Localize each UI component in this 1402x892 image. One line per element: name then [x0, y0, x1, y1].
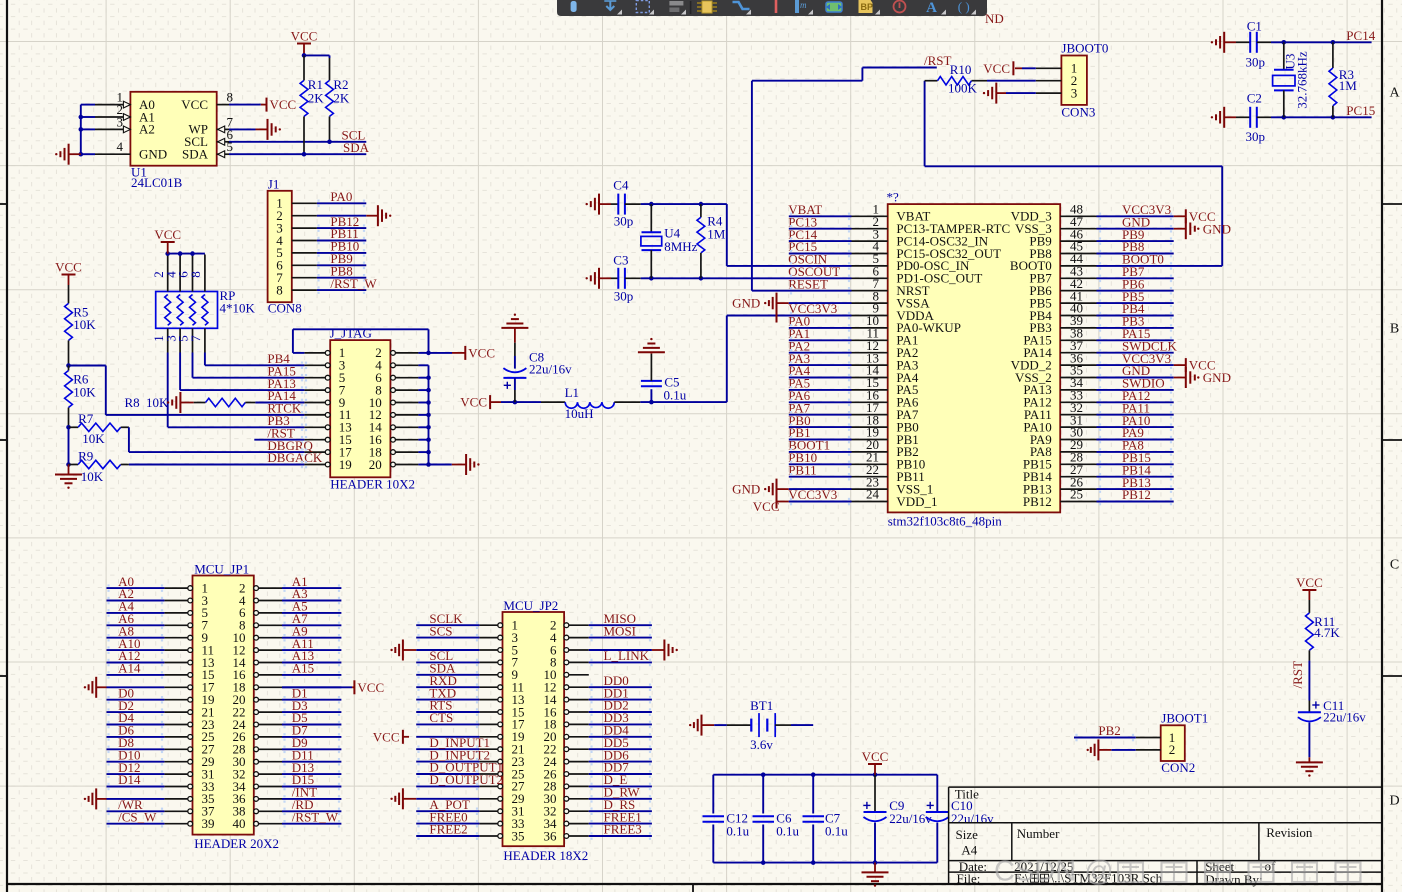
- svg-text:DBGACK: DBGACK: [267, 450, 323, 465]
- svg-text:MCU_JP1: MCU_JP1: [194, 561, 249, 576]
- svg-text:VCC: VCC: [373, 729, 400, 744]
- svg-text:8MHz: 8MHz: [664, 239, 697, 254]
- svg-text:JBOOT0: JBOOT0: [1061, 40, 1108, 55]
- svg-text:24: 24: [866, 487, 880, 502]
- svg-text:8: 8: [188, 271, 203, 278]
- svg-text:3.6v: 3.6v: [750, 737, 773, 752]
- svg-text:SCS: SCS: [429, 623, 452, 638]
- svg-text:( ): ( ): [958, 0, 970, 14]
- svg-text:A: A: [1389, 86, 1400, 101]
- svg-text:RESET: RESET: [788, 276, 828, 291]
- svg-text:25: 25: [1070, 487, 1083, 502]
- svg-text:VCC: VCC: [154, 227, 181, 242]
- svg-text:10uH: 10uH: [565, 406, 594, 421]
- svg-text:VCC: VCC: [181, 97, 208, 112]
- svg-text:VCC: VCC: [468, 345, 495, 360]
- svg-text:3: 3: [1071, 85, 1078, 100]
- svg-text:8: 8: [276, 282, 283, 297]
- svg-text:A2: A2: [139, 122, 155, 137]
- svg-text:D: D: [1389, 794, 1399, 809]
- svg-text:A14: A14: [118, 661, 141, 676]
- svg-text:File:: File:: [957, 871, 981, 886]
- svg-text:GND: GND: [1203, 221, 1231, 236]
- svg-text:40: 40: [233, 816, 246, 831]
- svg-text:PB11: PB11: [788, 462, 816, 477]
- svg-text:30p: 30p: [614, 214, 634, 229]
- svg-text:PC14: PC14: [1346, 28, 1375, 43]
- svg-text:stm32f103c8t6_48pin: stm32f103c8t6_48pin: [888, 514, 1003, 529]
- svg-text:22u/16v: 22u/16v: [529, 362, 572, 377]
- svg-text:39: 39: [202, 816, 215, 831]
- svg-text:D_OUTPUT2: D_OUTPUT2: [429, 772, 503, 787]
- svg-text:J_JTAG: J_JTAG: [330, 326, 372, 341]
- svg-text:0.1u: 0.1u: [776, 824, 799, 839]
- svg-text:C4: C4: [613, 178, 629, 193]
- svg-text:32.768kHz: 32.768kHz: [1295, 51, 1310, 109]
- svg-text:4.7K: 4.7K: [1314, 625, 1340, 640]
- svg-text:10K: 10K: [146, 395, 169, 410]
- svg-text:MOSI: MOSI: [604, 623, 637, 638]
- svg-text:2K: 2K: [333, 91, 350, 106]
- svg-text:35: 35: [512, 828, 525, 843]
- svg-text:VCC: VCC: [55, 259, 82, 274]
- svg-text:ND: ND: [985, 11, 1004, 26]
- svg-text:HEADER 18X2: HEADER 18X2: [503, 848, 588, 863]
- svg-text:D14: D14: [118, 772, 141, 787]
- svg-text:C1: C1: [1247, 18, 1262, 33]
- svg-text:2: 2: [1169, 742, 1176, 757]
- svg-text:30p: 30p: [614, 288, 634, 303]
- svg-text:J1: J1: [268, 176, 280, 191]
- svg-text:*?: *?: [887, 190, 900, 205]
- svg-text:/RST: /RST: [924, 53, 952, 68]
- svg-text:CTS: CTS: [429, 710, 453, 725]
- svg-text:PB2: PB2: [1098, 723, 1120, 738]
- svg-text:A: A: [926, 0, 937, 16]
- svg-text:22u/16v: 22u/16v: [889, 811, 932, 826]
- svg-text:0.1u: 0.1u: [726, 824, 749, 839]
- svg-text:R9: R9: [78, 448, 93, 463]
- svg-text:CON2: CON2: [1161, 760, 1195, 775]
- svg-text:19: 19: [339, 457, 352, 472]
- svg-text:PA0: PA0: [330, 189, 352, 204]
- svg-text:1M: 1M: [1339, 78, 1358, 93]
- svg-text:JBOOT1: JBOOT1: [1161, 710, 1208, 725]
- svg-text:4*10K: 4*10K: [220, 301, 256, 316]
- svg-text:/RST_W: /RST_W: [292, 809, 339, 824]
- svg-text:SDA: SDA: [343, 140, 370, 155]
- svg-text:10K: 10K: [73, 317, 96, 332]
- svg-text:GND: GND: [139, 147, 167, 162]
- svg-text:C3: C3: [613, 252, 628, 267]
- svg-text:PB12: PB12: [1023, 494, 1052, 509]
- svg-text:22u/16v: 22u/16v: [1323, 710, 1366, 725]
- svg-text:VCC: VCC: [357, 680, 384, 695]
- svg-text:Number: Number: [1017, 826, 1060, 841]
- svg-text:C: C: [1390, 558, 1399, 573]
- svg-text:VCC: VCC: [1296, 575, 1323, 590]
- svg-text:0.1u: 0.1u: [825, 824, 848, 839]
- svg-text:20: 20: [369, 457, 382, 472]
- svg-text:GND: GND: [732, 296, 760, 311]
- svg-text:VCC: VCC: [983, 61, 1010, 76]
- svg-text:VCC: VCC: [460, 395, 487, 410]
- svg-text:24LC01B: 24LC01B: [131, 175, 183, 190]
- svg-text:R8: R8: [125, 395, 140, 410]
- svg-text:L1: L1: [565, 385, 579, 400]
- svg-text:A4: A4: [961, 842, 977, 857]
- svg-text:1M: 1M: [707, 227, 726, 242]
- svg-text:R7: R7: [78, 411, 94, 426]
- svg-text:/CS_W: /CS_W: [118, 809, 157, 824]
- svg-text:L_LINK: L_LINK: [604, 648, 650, 663]
- svg-text:30p: 30p: [1246, 54, 1266, 69]
- svg-text:4: 4: [117, 139, 124, 154]
- svg-text:3: 3: [117, 114, 124, 129]
- svg-text:7: 7: [188, 335, 203, 342]
- svg-text:CON8: CON8: [268, 301, 302, 316]
- svg-text:CON3: CON3: [1061, 105, 1095, 120]
- svg-text:100K: 100K: [948, 80, 978, 95]
- svg-text:VCC: VCC: [270, 97, 297, 112]
- svg-text:SDA: SDA: [182, 147, 209, 162]
- svg-text:/RST_W: /RST_W: [330, 276, 377, 291]
- svg-text:VCC: VCC: [291, 28, 318, 43]
- svg-text:BP: BP: [861, 2, 874, 12]
- svg-text:GND: GND: [732, 482, 760, 497]
- svg-text:MCU_JP2: MCU_JP2: [503, 598, 558, 613]
- svg-text:BT1: BT1: [750, 698, 773, 713]
- svg-text:5: 5: [227, 139, 234, 154]
- svg-text:CSDN @: CSDN @: [994, 856, 1114, 888]
- svg-text:R10: R10: [950, 62, 972, 77]
- svg-text:Revision: Revision: [1266, 825, 1313, 840]
- svg-text:Size: Size: [956, 827, 979, 842]
- svg-text:FREE2: FREE2: [429, 822, 467, 837]
- svg-text:36: 36: [544, 828, 558, 843]
- svg-text:FREE3: FREE3: [604, 822, 642, 837]
- svg-text:HEADER 20X2: HEADER 20X2: [194, 836, 279, 851]
- svg-text:GND: GND: [1203, 370, 1231, 385]
- svg-text:B: B: [1390, 322, 1399, 337]
- svg-text:/RST: /RST: [1290, 661, 1305, 689]
- svg-text:10K: 10K: [73, 384, 96, 399]
- svg-text:0.1u: 0.1u: [664, 387, 687, 402]
- svg-text:30p: 30p: [1246, 129, 1266, 144]
- svg-text:HEADER 10X2: HEADER 10X2: [330, 476, 415, 491]
- svg-text:22u/16v: 22u/16v: [951, 811, 994, 826]
- svg-text:m: m: [800, 0, 807, 10]
- svg-text:VCC: VCC: [862, 749, 889, 764]
- svg-text:PB12: PB12: [1122, 487, 1151, 502]
- svg-text:10K: 10K: [81, 469, 104, 484]
- svg-text:Drawn By:: Drawn By:: [1205, 872, 1262, 887]
- svg-text:10K: 10K: [82, 431, 105, 446]
- svg-text:A15: A15: [292, 661, 314, 676]
- svg-text:8: 8: [227, 90, 234, 105]
- svg-text:VCC: VCC: [753, 499, 780, 514]
- svg-text:C2: C2: [1247, 91, 1262, 106]
- svg-text:2K: 2K: [308, 91, 325, 106]
- svg-text:PC15: PC15: [1346, 103, 1375, 118]
- svg-text:VDD_1: VDD_1: [896, 494, 937, 509]
- svg-text:Title: Title: [955, 787, 979, 802]
